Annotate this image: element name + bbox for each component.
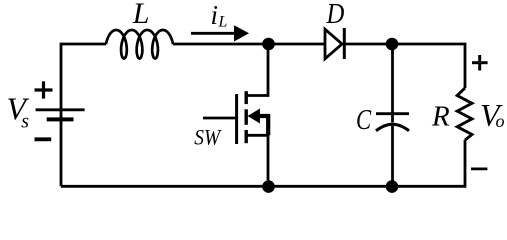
svg-text:L: L <box>132 0 150 30</box>
MOSFET channel segment top <box>244 91 247 104</box>
MOSFET SW gate lead <box>203 117 237 120</box>
node dot bottom-cap <box>386 180 399 193</box>
svg-text:i: i <box>211 0 219 30</box>
capacitor C curved plate <box>376 124 409 131</box>
resistor R zigzag <box>457 88 472 140</box>
label + (output) <box>472 55 488 71</box>
label - (output) <box>471 167 487 170</box>
svg-text:L: L <box>218 14 228 31</box>
MOSFET body arrow <box>248 109 261 124</box>
diode D triangle <box>325 29 342 59</box>
svg-text:SW: SW <box>194 126 221 149</box>
label + (source) <box>35 81 53 98</box>
svg-text:C: C <box>356 103 372 135</box>
diode D cathode bar <box>343 28 346 59</box>
voltage source Vs bottom plate <box>47 117 74 121</box>
MOSFET drain connection <box>246 44 268 96</box>
wire diode cathode to top-right corner <box>345 44 465 88</box>
svg-text:R: R <box>431 100 450 132</box>
MOSFET channel segment bottom <box>244 130 247 143</box>
MOSFET gate bar <box>235 94 238 144</box>
svg-text:s: s <box>21 111 29 133</box>
node dot top-cap <box>386 38 399 51</box>
current arrow iL <box>191 32 236 35</box>
svg-text:D: D <box>326 0 345 29</box>
wire top-left: source to inductor <box>61 44 106 186</box>
label - (source) <box>35 137 52 141</box>
wire bottom rail <box>61 140 465 186</box>
node dot top-drain <box>262 38 275 51</box>
voltage source Vs top plate <box>36 108 85 111</box>
wire inductor to diode anode <box>173 43 325 46</box>
inductor L <box>106 30 173 59</box>
MOSFET channel segment middle <box>244 109 247 125</box>
MOSFET source connection <box>246 135 268 186</box>
svg-text:o: o <box>496 111 505 131</box>
node dot bottom-source <box>262 180 275 193</box>
capacitor C top lead <box>391 44 394 123</box>
capacitor C top plate <box>376 112 409 115</box>
capacitor C bottom lead <box>391 126 394 186</box>
